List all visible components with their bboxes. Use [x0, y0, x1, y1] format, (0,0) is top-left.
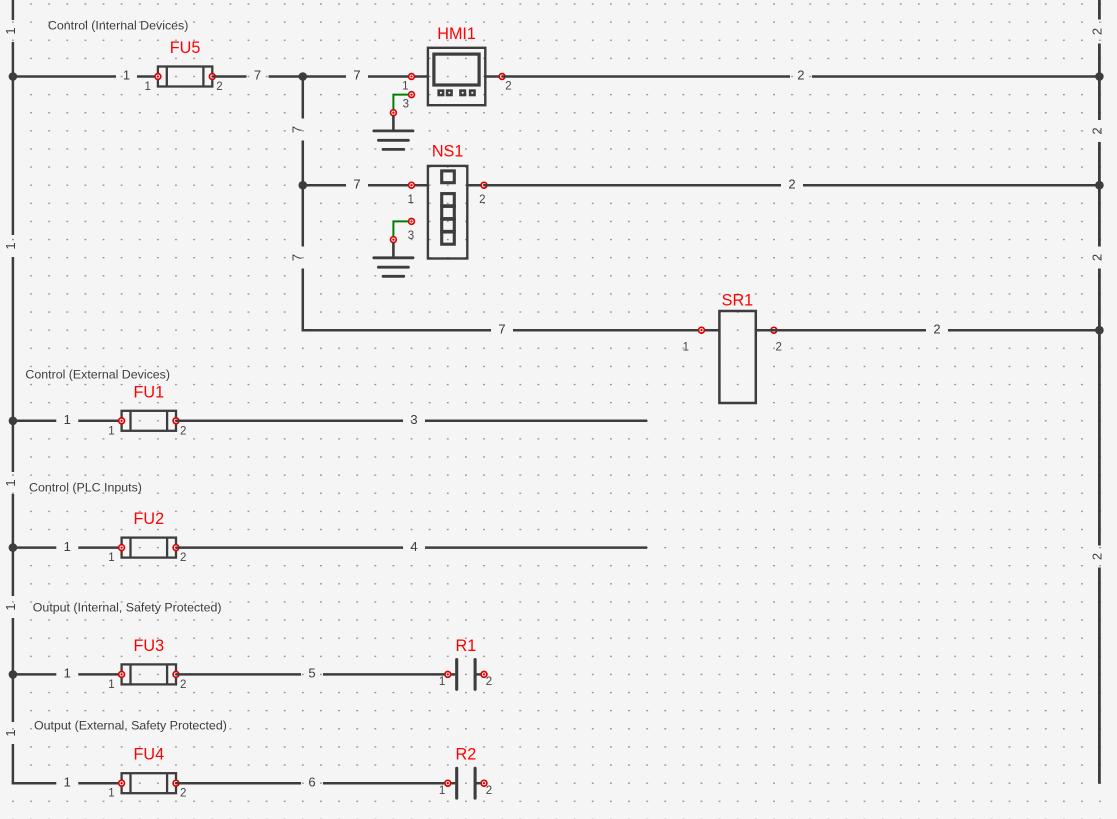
svg-text:2: 2	[486, 785, 492, 797]
svg-text:2: 2	[180, 552, 186, 564]
svg-text:2: 2	[933, 321, 940, 336]
svg-text:1: 1	[3, 603, 18, 610]
svg-text:1: 1	[3, 242, 18, 249]
fuse FU1	[122, 411, 176, 431]
svg-text:1: 1	[3, 27, 18, 34]
wire (branch net 7)	[302, 141, 305, 247]
svg-text:HMI1: HMI1	[437, 25, 476, 43]
terminal SR1.1	[699, 327, 705, 333]
svg-text:FU5: FU5	[170, 39, 201, 57]
wire branch to NS1	[303, 184, 346, 187]
relay contact R1	[448, 660, 484, 690]
wire: L1 corner into rung 7	[12, 782, 57, 785]
wire (left bus L1)	[12, 42, 15, 235]
wire L1 to FU2	[13, 546, 56, 549]
wire net 6 to R2	[323, 782, 448, 785]
svg-text:2: 2	[1090, 553, 1105, 560]
svg-text:Output (External, Safety Prote: Output (External, Safety Protected)	[34, 719, 227, 733]
wire: HMI1.2 stub	[485, 75, 502, 78]
terminal FU3.2	[173, 672, 179, 678]
svg-text:7: 7	[254, 68, 261, 83]
wire (right bus L2)	[1098, 0, 1101, 20]
terminal FU4.2	[173, 780, 179, 786]
terminal NS1.1	[409, 182, 415, 188]
wire (right bus L2)	[1098, 142, 1101, 247]
svg-text:NS1: NS1	[432, 143, 464, 161]
svg-text:Control (PLC Inputs): Control (PLC Inputs)	[29, 480, 142, 494]
wire to branch node	[269, 75, 303, 78]
wire to FU5.1	[137, 75, 158, 78]
wire (right bus L2)	[1098, 44, 1101, 121]
svg-text:3: 3	[408, 230, 414, 242]
svg-text:1: 1	[144, 81, 150, 93]
wire to FU2.1	[78, 546, 121, 549]
terminal PE2	[391, 237, 397, 243]
svg-text:2: 2	[1090, 28, 1105, 35]
svg-text:2: 2	[180, 425, 186, 437]
svg-text:1: 1	[108, 552, 114, 564]
terminal R1.1	[445, 672, 451, 678]
terminal R2.1	[445, 780, 451, 786]
svg-text:R1: R1	[456, 637, 477, 655]
wire (left bus L1)	[12, 257, 15, 472]
wire to right bus	[812, 75, 1099, 78]
svg-text:1: 1	[3, 479, 18, 486]
wire FU5.2 to branch	[212, 75, 246, 78]
svg-text:3: 3	[403, 99, 409, 111]
wire L1 to FU5	[13, 75, 116, 78]
svg-text:Control (External Devices): Control (External Devices)	[25, 368, 170, 382]
svg-text:7: 7	[353, 68, 360, 83]
fuse FU3	[122, 664, 176, 684]
wire FU1.2 right	[176, 420, 403, 423]
svg-text:2: 2	[180, 788, 186, 800]
svg-text:6: 6	[308, 774, 315, 789]
wire L1 to FU3	[13, 673, 56, 676]
safety relay SR1	[719, 311, 755, 403]
svg-text:1: 1	[64, 774, 71, 789]
node L1-rung6 (junction)	[9, 670, 18, 679]
svg-text:1: 1	[64, 666, 71, 681]
node L1-rung1 (junction)	[9, 72, 18, 81]
wire net 5 to R1	[323, 673, 448, 676]
svg-text:1: 1	[108, 425, 114, 437]
wire NS1.2 to L2	[484, 184, 781, 187]
terminal FU2.1	[119, 545, 125, 551]
svg-text:7: 7	[498, 321, 505, 336]
node L2-rung1 (junction)	[1095, 72, 1104, 81]
svg-text:2: 2	[1090, 254, 1105, 261]
wire to FU1.1	[78, 420, 121, 423]
svg-text:Control (Internal Devices): Control (Internal Devices)	[48, 19, 188, 33]
wire L1 to FU1	[13, 420, 56, 423]
svg-text:FU4: FU4	[134, 746, 165, 764]
network switch NS1	[428, 166, 467, 259]
svg-text:4: 4	[410, 539, 417, 554]
wire branch to HMI1	[303, 75, 346, 78]
terminal FU5.1	[155, 74, 161, 80]
svg-text:2: 2	[797, 68, 804, 83]
node L2-rung2 (junction)	[1095, 181, 1104, 190]
svg-text:2: 2	[180, 679, 186, 691]
svg-text:Output (Internal, Safety Prote: Output (Internal, Safety Protected)	[33, 601, 222, 615]
terminal R1.2	[481, 672, 487, 678]
svg-text:1: 1	[439, 676, 445, 688]
node branch B (junction)	[299, 181, 308, 190]
svg-text:2: 2	[776, 342, 782, 354]
wire FU3.2 right	[176, 673, 301, 676]
wire FU4.2 right	[176, 782, 301, 785]
svg-text:1: 1	[683, 342, 689, 354]
relay contact R2	[448, 768, 484, 798]
terminal HMI1.1	[409, 74, 415, 80]
terminal FU1.2	[173, 418, 179, 424]
svg-text:FU3: FU3	[134, 637, 165, 655]
wire: branch corner to SR1	[302, 329, 491, 332]
terminal FU4.1	[119, 780, 125, 786]
fuse FU4	[122, 773, 176, 793]
svg-text:3: 3	[410, 412, 417, 427]
node L2-rung3 (junction)	[1095, 326, 1104, 335]
svg-text:7: 7	[353, 176, 360, 191]
terminal HMI1.3	[409, 92, 415, 98]
wire (branch net 7)	[302, 269, 305, 331]
wire to SR1.1	[513, 329, 719, 332]
svg-text:2: 2	[479, 194, 485, 206]
wire (branch net 7)	[302, 77, 305, 119]
ground GND1 (below HMI1)	[374, 116, 413, 150]
svg-text:1: 1	[3, 729, 18, 736]
svg-text:2: 2	[486, 676, 492, 688]
svg-text:1: 1	[64, 412, 71, 427]
wire HMI1.2 to L2	[502, 75, 790, 78]
svg-text:1: 1	[407, 194, 413, 206]
svg-text:2: 2	[1090, 127, 1105, 134]
wire net 4 end	[425, 546, 647, 549]
wire to right bus	[803, 184, 1099, 187]
node L1-rung4 (junction)	[9, 417, 18, 426]
svg-text:7: 7	[290, 254, 305, 261]
wire net 3 end	[425, 420, 647, 423]
wire FU2.2 right	[176, 546, 403, 549]
wire (left bus L1)	[12, 0, 15, 20]
svg-text:1: 1	[64, 539, 71, 554]
wire SR1.2 to L2	[756, 329, 926, 332]
svg-text:2: 2	[216, 81, 222, 93]
terminal PE1	[391, 110, 397, 116]
wire to NS1.1	[368, 184, 428, 187]
svg-text:SR1: SR1	[722, 292, 754, 310]
svg-text:1: 1	[108, 788, 114, 800]
terminal FU2.2	[173, 545, 179, 551]
svg-text:1: 1	[123, 68, 130, 83]
terminal HMI1.2	[499, 74, 505, 80]
svg-text:1: 1	[108, 679, 114, 691]
wire (right bus L2)	[1098, 269, 1101, 546]
ground GND2 (below NS1)	[374, 243, 413, 277]
svg-text:FU1: FU1	[134, 383, 165, 401]
svg-text:1: 1	[439, 785, 445, 797]
svg-text:5: 5	[308, 666, 315, 681]
svg-text:1: 1	[402, 81, 408, 93]
wire (right bus L2)	[1098, 568, 1101, 784]
svg-text:7: 7	[290, 126, 305, 133]
svg-text:2: 2	[788, 176, 795, 191]
svg-text:FU2: FU2	[134, 510, 165, 528]
wire (left bus L1)	[12, 618, 15, 722]
wire to right bus	[948, 329, 1099, 332]
terminal FU3.1	[119, 672, 125, 678]
node branch A (junction)	[299, 72, 308, 81]
terminal NS1.3	[409, 219, 415, 225]
terminal FU1.1	[119, 418, 125, 424]
svg-text:2: 2	[505, 81, 511, 93]
terminal SR1.2	[771, 327, 777, 333]
wire: green PE wire HMI1.3	[393, 95, 411, 113]
terminal R2.2	[481, 780, 487, 786]
wire (left bus L1)	[12, 494, 15, 596]
wire (left bus L1)	[12, 744, 15, 783]
fuse FU2	[122, 538, 176, 558]
node L1-rung5 (junction)	[9, 543, 18, 552]
svg-text:R2: R2	[456, 746, 477, 764]
terminal NS1.2	[481, 182, 487, 188]
HMI terminal device HMI1	[428, 48, 485, 105]
wire to FU3.1	[78, 673, 121, 676]
wire to FU4.1	[78, 782, 121, 785]
wire: green PE wire NS1.3	[393, 221, 411, 239]
wire to HMI1.1	[368, 75, 428, 78]
terminal FU5.2	[209, 74, 215, 80]
fuse FU5	[158, 67, 212, 87]
wire: NS1.2 stub	[467, 184, 484, 187]
